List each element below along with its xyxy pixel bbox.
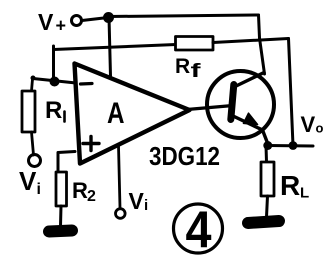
wire: inverting node up	[52, 46, 55, 81]
figure number circle 4	[174, 204, 223, 253]
resistor R1	[22, 91, 35, 132]
label Vo	[301, 112, 324, 137]
wire: Rf right lead	[213, 39, 289, 43]
svg-text:R: R	[280, 170, 300, 201]
label Vi (left input)	[19, 166, 41, 198]
svg-text:R: R	[72, 178, 88, 203]
op-amp A	[75, 64, 190, 164]
svg-text:4: 4	[186, 202, 212, 260]
svg-text:V: V	[19, 166, 37, 196]
svg-text:A: A	[107, 97, 125, 130]
svg-text:R: R	[175, 55, 190, 78]
resistor RL	[261, 162, 274, 196]
svg-text:L: L	[300, 185, 309, 202]
wire: R1 bottom lead	[32, 132, 34, 155]
node: emitter junction dot	[263, 141, 272, 150]
label R1	[45, 97, 65, 124]
wire: emitter node to Vo stub	[268, 144, 313, 148]
transistor Q1 circle	[207, 71, 274, 138]
label V+	[38, 9, 66, 36]
emitter arrow	[244, 113, 258, 124]
ground (under R2)	[49, 231, 72, 232]
svg-text:V: V	[301, 112, 316, 137]
wire: base from op-amp output	[187, 106, 233, 110]
label R2	[72, 178, 96, 205]
svg-text:R: R	[45, 97, 62, 124]
resistor Rf	[176, 37, 214, 51]
svg-text:f: f	[191, 61, 202, 82]
wire: top rail to right	[109, 15, 259, 17]
wire: R2 bottom lead	[59, 206, 63, 226]
label Vi (bottom)	[129, 188, 149, 214]
svg-text:3DG12: 3DG12	[149, 141, 220, 171]
node: Vo junction dot	[289, 141, 298, 150]
svg-text:V: V	[38, 9, 54, 35]
wire: V+ terminal to top junction	[82, 18, 108, 21]
svg-text:+: +	[56, 16, 67, 36]
wire: across to Rf left lead	[54, 45, 177, 50]
terminal V+	[72, 16, 82, 26]
label Rf	[175, 55, 202, 82]
label plus input	[83, 137, 99, 151]
label minus input	[81, 82, 93, 86]
node: top junction dot	[103, 12, 114, 23]
transistor collector stroke	[234, 73, 264, 88]
svg-text:2: 2	[87, 188, 96, 205]
wire: non-inverting input	[58, 152, 75, 173]
terminal Vi (bottom)	[116, 209, 126, 219]
wire: inverting input horizontal	[33, 79, 76, 84]
wire: R1 top lead	[32, 79, 33, 91]
wire: op-amp V- pin down	[119, 146, 121, 208]
transistor emitter stroke	[232, 116, 268, 144]
wire: junction down to op-amp top edge	[109, 18, 111, 77]
transistor base bar	[231, 85, 234, 120]
node: R1 top bend dot	[31, 76, 36, 81]
svg-text:i: i	[37, 181, 41, 198]
resistor R2	[56, 172, 67, 206]
terminal Vi left	[29, 155, 41, 167]
svg-text:V: V	[129, 188, 145, 214]
wire: down to emitter node	[289, 39, 294, 146]
ground (under RL)	[248, 221, 279, 223]
svg-text:i: i	[144, 197, 148, 214]
wire: down to collector	[259, 15, 265, 74]
wire: RL top lead	[265, 146, 269, 163]
label RL	[280, 170, 309, 202]
node: inverting junction dot	[50, 77, 60, 87]
svg-text:o: o	[316, 121, 324, 136]
wire: RL bottom lead	[267, 196, 268, 217]
